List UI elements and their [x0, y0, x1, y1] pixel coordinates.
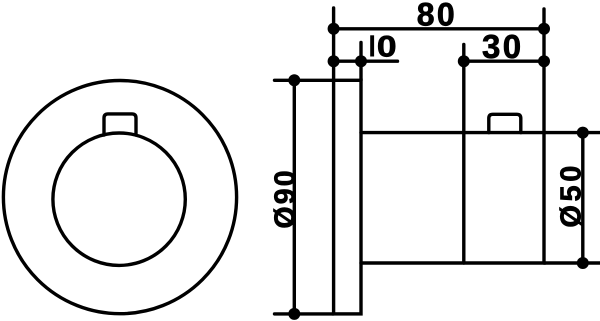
dim dot Ø50 bottom — [577, 257, 589, 269]
dim dot 10 right — [355, 55, 367, 67]
dimension line 10 — [334, 60, 398, 63]
label 10 — [370, 29, 396, 63]
svg-text:0: 0 — [377, 29, 397, 63]
knob tab front view — [104, 114, 136, 135]
dimension line 80 — [334, 27, 544, 30]
dim dot 30 left — [458, 55, 470, 67]
body side view (Ø50 cartridge housing) — [361, 133, 544, 263]
svg-text:30: 30 — [482, 28, 524, 65]
extension line body right edge (up to 80/30 dims) — [542, 9, 545, 133]
wall plate side view (10 mm thick) — [334, 80, 361, 314]
dim dot 80 right — [538, 23, 550, 35]
dim dot Ø90 top — [288, 74, 300, 86]
extension line left plate edge (up to 80 dim) — [332, 8, 335, 80]
svg-text:Ø90: Ø90 — [270, 168, 302, 228]
dim dot 30 right — [538, 55, 550, 67]
extension line top (Ø50) — [544, 131, 600, 134]
inner circle front view (Ø50 knob) — [53, 133, 185, 265]
svg-text:Ø50: Ø50 — [556, 162, 588, 228]
extension line top (Ø90) — [275, 79, 334, 82]
dimension line Ø50 — [581, 133, 584, 263]
body step edge (30 mm) — [462, 45, 465, 264]
dimension line 30 — [464, 60, 544, 63]
outer circle front view (Ø90 escutcheon) — [3, 81, 236, 314]
dim dot Ø90 bottom — [288, 308, 300, 320]
extension line right plate edge (up to 10 dim) — [359, 43, 362, 81]
dim dot Ø50 top — [577, 127, 589, 139]
dim dot 80 left — [328, 23, 340, 35]
extension line bottom (Ø50) — [544, 261, 600, 264]
knob tab side view — [489, 114, 521, 132]
dim dot 10 left — [328, 55, 340, 67]
extension line bottom (Ø90) — [275, 312, 334, 315]
dimension line Ø90 — [293, 80, 296, 314]
svg-text:80: 80 — [417, 0, 457, 33]
